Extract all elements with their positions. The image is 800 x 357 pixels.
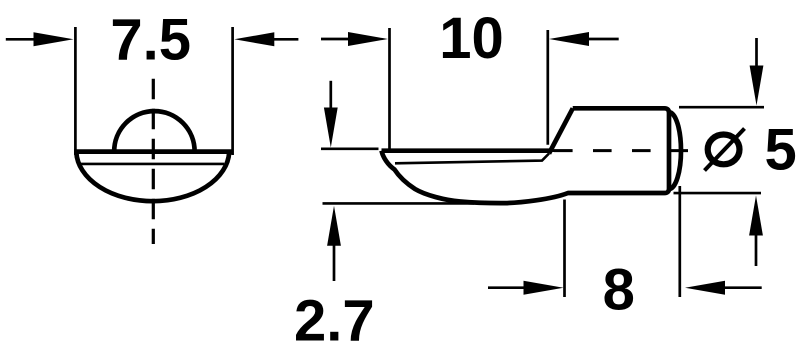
dimension arrow pointing right at 7.5 left <box>6 32 74 46</box>
horizontal dashed centerline of pin <box>554 149 688 152</box>
dimension text 7.5 <box>110 8 191 73</box>
svg-text:7.5: 7.5 <box>110 8 191 73</box>
plate top line of front view <box>74 149 232 154</box>
extension line left of 7.5 <box>74 27 77 155</box>
svg-text:2.7: 2.7 <box>294 289 375 354</box>
side view scoop bottom curve <box>382 108 670 203</box>
dimension text diameter 5 <box>705 118 797 183</box>
svg-text:10: 10 <box>439 6 504 71</box>
dimension arrow pointing right at 8 left <box>488 281 564 295</box>
side view dish inner thin line <box>395 154 549 164</box>
dimension arrow pointing left at 8 right <box>685 281 762 295</box>
up arrow for 2.7 <box>327 206 341 281</box>
plate inner thin line of front view <box>81 163 224 166</box>
side view chamfer crease line <box>549 108 573 153</box>
pin top reference line for diameter 5 <box>679 106 764 109</box>
bowl lower half ellipse of front view <box>76 152 229 201</box>
side view ledge top thick line <box>382 148 550 153</box>
down arrow at ledge top level <box>324 81 338 148</box>
down arrow for diameter 5 <box>750 38 764 106</box>
dimension text 10 <box>439 6 504 71</box>
dimension text 2.7 <box>294 289 375 354</box>
2.7 bottom reference line <box>323 202 475 205</box>
dimension arrow pointing right at 10 left <box>321 32 388 46</box>
up arrow for diameter 5 <box>749 196 763 267</box>
vertical dashed centerline of front view <box>152 79 155 244</box>
extension line left of 10 <box>388 28 391 152</box>
pin bottom reference line for diameter 5 <box>674 192 762 195</box>
dimension arrow pointing left at 7.5 right <box>234 32 298 46</box>
svg-text:8: 8 <box>603 258 635 323</box>
dome semicircle of front view <box>114 111 194 151</box>
extension line right of 7.5 <box>231 27 234 155</box>
extension line left of 8 <box>563 200 566 298</box>
side view rim thin line behind chamfer <box>550 149 572 152</box>
svg-text:5: 5 <box>765 118 797 183</box>
extension line right of 8 <box>678 186 681 297</box>
dimension text 8 <box>603 258 635 323</box>
pin rounded end bulge arc <box>669 112 681 189</box>
extension line right of 10 <box>546 30 549 145</box>
dimension arrow pointing left at 10 right <box>549 32 619 46</box>
ledge top reference line <box>321 148 379 151</box>
